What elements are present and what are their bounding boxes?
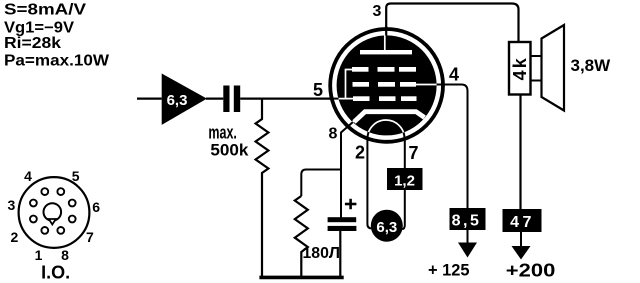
pin4 white lead bbox=[415, 84, 438, 86]
socket pin hole 7 bbox=[69, 216, 76, 223]
arrow +125 bbox=[467, 230, 469, 245]
tube pin5 entry stub bbox=[329, 98, 340, 100]
svg-text:3: 3 bbox=[372, 3, 381, 20]
svg-text:I.O.: I.O. bbox=[41, 263, 70, 283]
svg-text:4: 4 bbox=[449, 64, 459, 84]
electrolytic plus sign bbox=[345, 203, 357, 206]
socket pin hole 4 bbox=[41, 188, 48, 195]
amplifier input triangle bbox=[162, 74, 207, 125]
svg-text:6,3: 6,3 bbox=[376, 219, 397, 236]
anode stub white bbox=[384, 34, 386, 51]
heater arc outside tube bbox=[368, 120, 405, 139]
box 47 bbox=[503, 209, 542, 232]
svg-text:max.: max. bbox=[208, 123, 237, 143]
svg-text:+200: +200 bbox=[506, 260, 556, 280]
socket outline bbox=[19, 177, 90, 248]
electrolytic bottom lead bbox=[339, 231, 341, 277]
svg-text:4k: 4k bbox=[510, 56, 530, 80]
svg-text:7: 7 bbox=[86, 229, 94, 245]
svg-text:180Л: 180Л bbox=[303, 245, 341, 262]
svg-text:8,5: 8,5 bbox=[452, 212, 482, 229]
anode bar bbox=[360, 50, 412, 54]
wire transformer to 47 arrow bbox=[519, 95, 521, 210]
cathode-pin8 white lead bbox=[343, 119, 357, 131]
grid row g3 bbox=[352, 67, 369, 72]
socket pin hole 8 bbox=[57, 227, 64, 234]
heater supply circle 6,3 bbox=[371, 210, 403, 242]
box 8,5 bbox=[450, 208, 486, 230]
socket pin holes bbox=[30, 188, 76, 234]
parameter text block bbox=[4, 2, 109, 70]
resistor 180 branch wire bbox=[301, 170, 341, 197]
svg-text:S=8mA/V: S=8mA/V bbox=[4, 2, 87, 19]
svg-text:8: 8 bbox=[61, 247, 69, 263]
output transformer 4k bbox=[509, 42, 531, 95]
svg-text:6,3: 6,3 bbox=[167, 92, 188, 109]
capacitor C coupling plate right bbox=[234, 86, 240, 113]
svg-text:47: 47 bbox=[510, 214, 535, 231]
wire pin4 to 8,5 arrow bbox=[420, 85, 468, 210]
svg-text:500k: 500k bbox=[210, 141, 249, 159]
socket pin hole 2 bbox=[30, 216, 37, 223]
arrow +200 bbox=[520, 232, 522, 247]
socket pin hole 1 bbox=[41, 227, 48, 234]
wire pin2 heater bbox=[367, 139, 374, 229]
wire triangle to capacitor bbox=[206, 97, 223, 99]
grid row g2 bbox=[353, 82, 370, 87]
svg-text:5: 5 bbox=[72, 168, 80, 184]
wire pin7 heater bbox=[402, 139, 405, 230]
wire pin3 top to transformer bbox=[386, 4, 518, 43]
ground rail bbox=[259, 276, 343, 280]
svg-text:1: 1 bbox=[35, 247, 43, 263]
electrolytic capacitor plates bbox=[328, 217, 357, 222]
socket key hole bbox=[44, 203, 62, 221]
socket pin hole 6 bbox=[69, 200, 76, 207]
svg-text:2: 2 bbox=[11, 229, 19, 245]
resistor 180 zigzag bbox=[295, 196, 308, 277]
svg-text:Vg1=−9V: Vg1=−9V bbox=[4, 19, 75, 36]
speaker stubs bbox=[531, 55, 543, 57]
capacitor C coupling plate left bbox=[223, 86, 229, 113]
tube EL-pentode envelope bbox=[330, 29, 443, 142]
resistor max.500k bbox=[256, 99, 269, 277]
svg-text:4: 4 bbox=[24, 168, 32, 184]
cathode bbox=[354, 112, 425, 122]
tube pin3 stub bbox=[385, 26, 387, 36]
svg-text:Ri=28k: Ri=28k bbox=[4, 35, 61, 52]
socket pin hole 5 bbox=[57, 188, 64, 195]
svg-text:6: 6 bbox=[92, 199, 100, 215]
svg-text:7: 7 bbox=[408, 143, 418, 163]
grid strap white wiring bbox=[345, 70, 347, 100]
speaker horn bbox=[542, 25, 565, 111]
heater arc inside tube bbox=[368, 120, 405, 139]
svg-text:8: 8 bbox=[329, 125, 338, 142]
resistor 1,2 box bbox=[387, 168, 423, 190]
wire capacitor to tube grid bbox=[240, 97, 333, 99]
svg-text:+ 125: + 125 bbox=[428, 260, 470, 279]
grid row g1 bbox=[353, 96, 370, 101]
svg-text:2: 2 bbox=[355, 143, 365, 163]
wire input bbox=[137, 97, 162, 99]
svg-text:3,8W: 3,8W bbox=[571, 56, 612, 75]
socket pin labels bbox=[8, 168, 101, 263]
socket pin hole 3 bbox=[30, 200, 37, 207]
svg-text:5: 5 bbox=[313, 80, 323, 100]
wire pin8 cathode bbox=[341, 119, 357, 219]
tube inner disc bbox=[337, 35, 437, 135]
svg-text:1,2: 1,2 bbox=[394, 172, 415, 189]
svg-text:Pa=max.10W: Pa=max.10W bbox=[4, 52, 109, 69]
svg-text:3: 3 bbox=[8, 197, 16, 213]
